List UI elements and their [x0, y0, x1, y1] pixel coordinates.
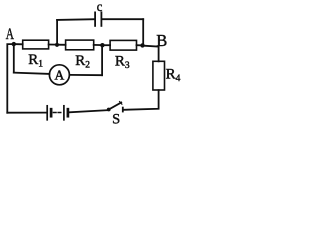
resistor R3 box [110, 40, 136, 50]
wire: capacitor branch, right riser to node B [142, 19, 144, 45]
svg-text:A: A [55, 68, 65, 83]
resistor R2 box [66, 40, 94, 50]
battery dashed link [53, 112, 61, 114]
capacitor c right plate [100, 12, 102, 26]
switch blade tip tick [120, 102, 122, 105]
battery cell 2 short plate [67, 109, 70, 116]
resistor R1 box [23, 40, 49, 49]
wire: capacitor branch, left riser [56, 20, 58, 45]
wire: ammeter branch, riser to R2/R3 junction [101, 45, 103, 75]
wire: ammeter branch, left horizontal [14, 73, 50, 74]
wire: junction to R1 [49, 44, 57, 46]
svg-text:B: B [156, 31, 167, 50]
switch S pivot contact [107, 108, 111, 112]
resistor R4 box [153, 61, 165, 90]
wire: switch to bottom-right corner and up to R4 [124, 90, 159, 110]
wire: battery to switch [70, 110, 108, 112]
wire: node B to R3 [137, 44, 143, 46]
wire: R3 to mid junction [102, 44, 110, 46]
wire: ammeter branch, right horizontal [69, 74, 102, 76]
battery cell 2 long plate [63, 106, 65, 120]
junction between R1 and R2 (capacitor tap) [55, 43, 59, 47]
svg-text:c: c [97, 0, 103, 15]
switch right contact [122, 108, 124, 112]
ammeter A body [49, 65, 69, 85]
wire: R4 up to corner, left to node B [143, 46, 159, 62]
wire: junction to R2 [94, 44, 103, 46]
wire: bottom rail, corner to battery [7, 112, 46, 114]
wire: ammeter branch, riser from node A [13, 44, 15, 73]
wire: R2 to cap junction [57, 44, 66, 46]
svg-text:A: A [6, 26, 15, 43]
junction between R2 and R3 (ammeter tap) [100, 43, 104, 47]
node B junction [140, 43, 144, 47]
battery cell 1 short plate [50, 109, 53, 116]
battery cell 1 long plate [46, 106, 48, 120]
wire: capacitor top left segment [57, 18, 95, 21]
wire: A to left rail and down to bottom-left corner [7, 44, 14, 113]
switch blade [109, 103, 122, 110]
node A junction [12, 42, 16, 46]
capacitor c left plate [94, 12, 96, 26]
wire: R1 to node A [14, 43, 23, 45]
svg-text:S: S [112, 111, 120, 127]
wire: capacitor top right segment [101, 18, 143, 20]
